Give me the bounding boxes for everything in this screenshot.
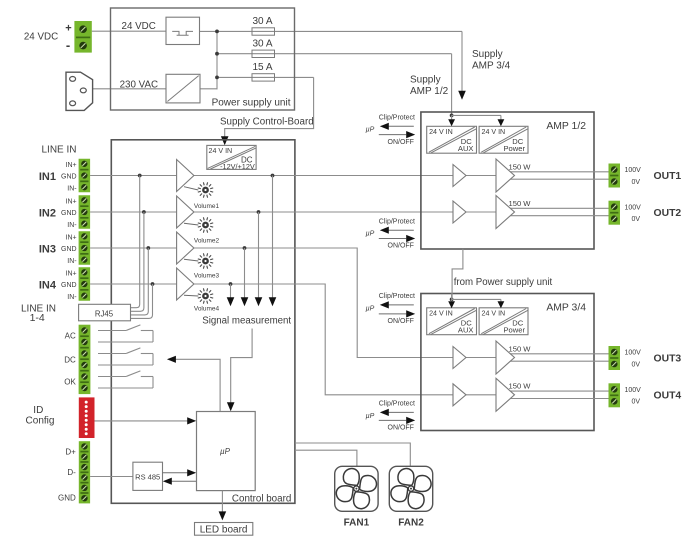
wire AC/DC converter output	[200, 88, 218, 90]
svg-text:ON/OFF: ON/OFF	[388, 318, 414, 325]
terminal IN1	[79, 159, 91, 193]
pot Volume1	[184, 187, 198, 190]
svg-text:ON/OFF: ON/OFF	[388, 243, 414, 250]
svg-text:RJ45: RJ45	[95, 309, 114, 318]
relay contact OK	[98, 371, 153, 388]
svg-text:µP: µP	[220, 447, 231, 456]
svg-text:AMP 3/4: AMP 3/4	[546, 303, 586, 314]
wire DC bus vertical	[216, 31, 218, 89]
fuse F1 30A	[252, 28, 275, 35]
preamp triangle (AMP 1/2 ch1)	[453, 165, 466, 187]
svg-text:24 V IN: 24 V IN	[429, 128, 453, 136]
DC/DC Power converter (AMP 3/4)	[479, 308, 528, 335]
wires input taps to RJ45	[138, 174, 142, 178]
svg-text:FAN2: FAN2	[398, 518, 424, 529]
mains plug	[66, 72, 93, 110]
svg-text:230 VAC: 230 VAC	[120, 80, 158, 91]
svg-text:15 A: 15 A	[252, 62, 272, 73]
svg-text:OUT2: OUT2	[654, 208, 682, 219]
terminal IN2	[79, 195, 91, 229]
svg-text:Config: Config	[26, 416, 55, 427]
svg-text:150 W: 150 W	[509, 162, 532, 171]
pot Volume4	[184, 294, 198, 297]
wire ch1 output	[194, 175, 453, 177]
power amp triangle 150W (AMP 1/2 ch2)	[496, 196, 515, 229]
svg-text:FAN1: FAN1	[344, 518, 370, 529]
svg-text:+: +	[65, 23, 71, 35]
control board box	[111, 140, 295, 504]
relay contact DC	[98, 348, 153, 365]
svg-text:Power supply unit: Power supply unit	[212, 97, 291, 108]
wire ch4 output to AMP 3/4	[194, 284, 453, 395]
DC/DC AUX converter (AMP 1/2)	[427, 126, 477, 153]
svg-text:24 V IN: 24 V IN	[429, 309, 453, 317]
channel wires (AMP 3/4 ch1)	[466, 357, 496, 359]
svg-text:D-: D-	[67, 468, 76, 477]
wire supply AMP 3/4 (upper segment)	[461, 31, 463, 92]
svg-text:Clip/Protect: Clip/Protect	[379, 218, 415, 225]
terminal OUT1	[609, 164, 621, 188]
svg-text:LINE IN: LINE IN	[41, 144, 76, 155]
svg-text:100V: 100V	[624, 167, 641, 174]
microprocessor uP box	[197, 412, 256, 491]
svg-text:Volume1: Volume1	[194, 203, 220, 210]
uP signals AMP 1/2 ch1	[366, 114, 416, 145]
preamp triangle (AMP 1/2 ch2)	[453, 201, 466, 223]
svg-text:OUT3: OUT3	[654, 353, 682, 364]
svg-text:100V: 100V	[624, 204, 641, 211]
svg-text:Control board: Control board	[232, 494, 291, 505]
preamp triangle (AMP 3/4 ch2)	[453, 384, 466, 406]
svg-text:24 VDC: 24 VDC	[24, 32, 58, 43]
svg-text:OK: OK	[64, 377, 76, 386]
input wires IN1-IN4 to volume amps	[90, 175, 177, 177]
junction dots DC bus	[215, 30, 219, 34]
svg-text:Clip/Protect: Clip/Protect	[379, 401, 415, 408]
LED board box	[195, 523, 253, 536]
wire ID config to uP	[95, 420, 189, 422]
svg-text:µP: µP	[366, 413, 375, 420]
wire ch2 output	[194, 211, 453, 213]
svg-text:ON/OFF: ON/OFF	[388, 425, 414, 432]
terminal strip AC/DC/OK	[79, 325, 91, 394]
wire fuse2 rail	[217, 53, 452, 55]
svg-text:IN-: IN-	[67, 258, 77, 265]
wire DC buffer to fuses rail	[200, 30, 463, 32]
wire ch3 output to AMP 3/4	[194, 248, 453, 358]
svg-text:µP: µP	[366, 231, 375, 238]
terminal strip D+/D-/GND	[79, 441, 90, 503]
svg-text:OUT1: OUT1	[654, 171, 682, 182]
svg-text:30 A: 30 A	[252, 16, 272, 27]
supply distribution inside AMP 3/4	[450, 298, 454, 302]
svg-text:Clip/Protect: Clip/Protect	[379, 293, 415, 300]
svg-text:IN1: IN1	[39, 171, 56, 183]
svg-text:Clip/Protect: Clip/Protect	[379, 114, 415, 121]
svg-text:from Power supply unit: from Power supply unit	[454, 277, 553, 288]
RJ45 box	[79, 304, 131, 321]
channel wires (AMP 1/2 ch2)	[466, 211, 496, 213]
svg-text:LED board: LED board	[200, 525, 248, 536]
AC/DC converter block	[166, 74, 200, 103]
terminal IN4	[79, 267, 91, 301]
fuse F2 30A	[252, 50, 275, 57]
power supply unit box	[111, 8, 295, 110]
terminal IN3	[79, 231, 91, 265]
arrow uP to RS485	[172, 480, 197, 482]
wire control board to FAN1	[295, 450, 357, 466]
svg-text:ON/OFF: ON/OFF	[388, 139, 414, 146]
svg-text:24 V IN: 24 V IN	[209, 147, 233, 155]
svg-text:DC: DC	[64, 356, 76, 365]
relay contact AC	[98, 325, 153, 342]
terminal OUT2	[609, 201, 621, 225]
arrow RS485 to uP	[163, 472, 189, 474]
svg-text:Volume4: Volume4	[194, 305, 220, 312]
fuse F3 15A	[252, 74, 275, 81]
wire D- to RS485	[90, 476, 133, 478]
wire supply pass-through to AMP 3/4	[452, 249, 463, 300]
svg-text:IN-: IN-	[67, 294, 77, 301]
svg-text:µP: µP	[366, 305, 375, 312]
svg-text:Power: Power	[503, 326, 525, 335]
DC/DC Power converter (AMP 1/2)	[479, 126, 528, 153]
svg-text:AMP 1/2: AMP 1/2	[546, 121, 586, 132]
amplifier box AMP 3/4	[421, 294, 594, 431]
uP signals AMP 1/2 ch2	[366, 218, 416, 249]
svg-text:Signal measurement: Signal measurement	[202, 316, 291, 327]
svg-text:D+: D+	[65, 447, 76, 456]
svg-text:150 W: 150 W	[509, 382, 532, 391]
volume amplifier triangles ch1-ch4	[177, 160, 194, 192]
svg-text:IN2: IN2	[39, 207, 56, 219]
wire mains plug to PSU	[93, 88, 166, 90]
svg-text:Supply: Supply	[410, 75, 441, 86]
svg-text:1-4: 1-4	[30, 312, 45, 324]
wire uP to LED board	[221, 491, 223, 513]
terminal OUT4	[609, 383, 621, 407]
pot Volume3	[184, 259, 198, 261]
svg-text:150 W: 150 W	[509, 344, 532, 353]
wire control board to FAN2	[295, 443, 410, 466]
svg-text:24 V IN: 24 V IN	[482, 309, 506, 317]
svg-text:0V: 0V	[631, 361, 640, 368]
svg-text:IN+: IN+	[66, 234, 77, 241]
DIP switch ID (red)	[79, 397, 95, 438]
svg-text:RS 485: RS 485	[135, 472, 160, 481]
terminal OUT3	[609, 346, 621, 370]
svg-text:IN4: IN4	[39, 279, 57, 291]
svg-text:IN+: IN+	[66, 198, 77, 205]
signal measurement tap wires	[271, 174, 275, 178]
supply distribution inside AMP 1/2	[450, 114, 454, 118]
RS 485 box	[133, 462, 163, 490]
power amp triangle 150W (AMP 3/4 ch1)	[496, 341, 515, 374]
power amp triangle 150W (AMP 1/2 ch1)	[496, 159, 515, 192]
svg-text:-: -	[66, 38, 70, 53]
svg-text:GND: GND	[61, 174, 77, 181]
svg-text:100V: 100V	[624, 387, 641, 394]
DC converter -12V/+12V block	[207, 145, 256, 170]
svg-text:Volume3: Volume3	[194, 273, 220, 280]
svg-text:30 A: 30 A	[252, 38, 272, 49]
DC/DC AUX converter (AMP 3/4)	[427, 308, 477, 335]
svg-text:µP: µP	[366, 127, 375, 134]
svg-text:0V: 0V	[631, 399, 640, 406]
svg-text:0V: 0V	[631, 216, 640, 223]
pot Volume2	[184, 223, 198, 225]
channel wires (AMP 1/2 ch1)	[466, 175, 496, 177]
svg-text:Volume2: Volume2	[194, 237, 220, 244]
svg-text:OUT4: OUT4	[654, 391, 682, 402]
svg-text:IN-: IN-	[67, 222, 77, 229]
wire fuse3 rail	[217, 76, 314, 78]
svg-text:IN+: IN+	[66, 162, 77, 169]
svg-text:24 VDC: 24 VDC	[122, 21, 156, 32]
svg-text:Power: Power	[503, 144, 525, 153]
wire supply AMP 1/2	[451, 54, 453, 116]
DC buffer block	[166, 17, 200, 44]
svg-text:IN+: IN+	[66, 270, 77, 277]
svg-text:AUX: AUX	[458, 326, 474, 335]
svg-text:AC: AC	[65, 331, 76, 340]
svg-text:0V: 0V	[631, 179, 640, 186]
svg-text:24 V IN: 24 V IN	[482, 128, 506, 136]
svg-text:Supply Control-Board: Supply Control-Board	[220, 117, 314, 128]
svg-text:Supply: Supply	[472, 49, 503, 60]
svg-text:AMP 1/2: AMP 1/2	[410, 86, 449, 97]
wire 24VDC terminal to PSU	[92, 30, 166, 32]
svg-text:GND: GND	[61, 282, 77, 289]
wire signal measurement to uP	[231, 329, 252, 405]
svg-text:AMP 3/4: AMP 3/4	[472, 61, 511, 72]
power amp triangle 150W (AMP 3/4 ch2)	[496, 378, 515, 411]
svg-text:150 W: 150 W	[509, 199, 532, 208]
preamp triangle (AMP 3/4 ch1)	[453, 347, 466, 369]
terminal X1 24VDC	[74, 21, 91, 53]
svg-text:ID: ID	[33, 405, 43, 416]
wire supply to control board	[225, 77, 314, 138]
FAN2	[389, 466, 432, 511]
amplifier box AMP 1/2	[421, 112, 594, 249]
FAN1	[335, 466, 378, 511]
uP signals AMP 3/4 ch4	[366, 401, 416, 432]
svg-text:GND: GND	[61, 246, 77, 253]
svg-text:GND: GND	[58, 494, 76, 503]
svg-text:100V: 100V	[624, 350, 641, 357]
svg-text:GND: GND	[61, 210, 77, 217]
channel wires (AMP 3/4 ch2)	[466, 394, 496, 396]
svg-text:-12V/+12V: -12V/+12V	[220, 162, 255, 171]
uP signals AMP 3/4 ch3	[366, 293, 416, 325]
wire uP to relays	[176, 359, 221, 411]
svg-text:IN3: IN3	[39, 243, 56, 255]
svg-text:AUX: AUX	[458, 144, 474, 153]
svg-text:IN-: IN-	[67, 185, 77, 192]
